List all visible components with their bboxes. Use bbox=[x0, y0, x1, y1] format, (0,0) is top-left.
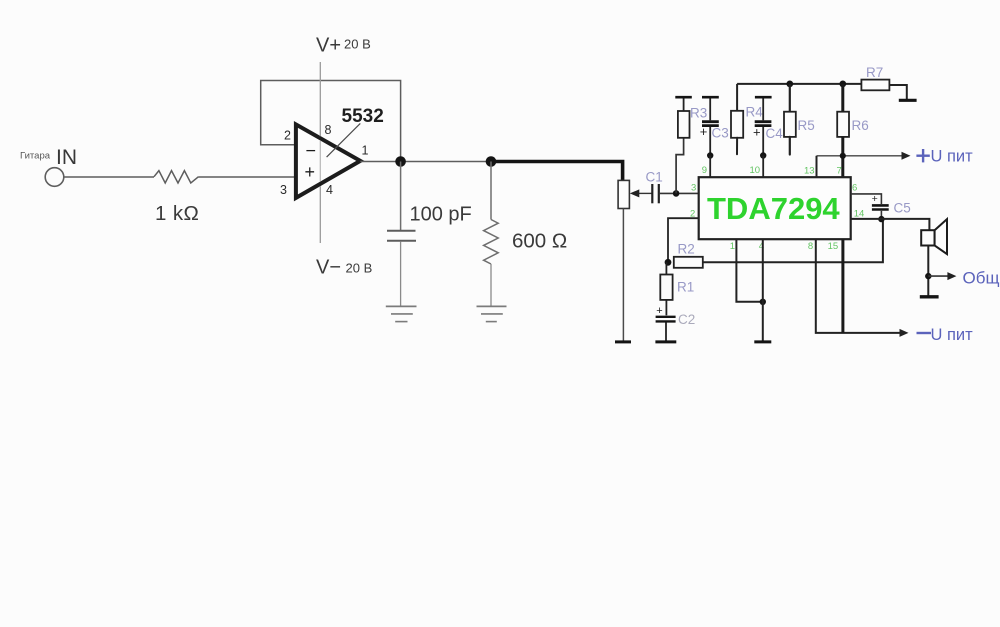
wire pin 7 bbox=[841, 137, 844, 177]
speaker horn bbox=[935, 219, 947, 254]
capacitor C2 plates bbox=[656, 316, 676, 318]
svg-text:100 pF: 100 pF bbox=[410, 204, 472, 226]
ground earth under 100 pF bbox=[386, 305, 417, 307]
svg-text:8: 8 bbox=[325, 123, 332, 137]
wire op-amp output bbox=[360, 161, 491, 163]
capacitor 100 pF plates bbox=[387, 230, 416, 232]
wire input to R 1k bbox=[64, 176, 154, 178]
wire pin 1 bbox=[736, 239, 762, 302]
svg-text:9: 9 bbox=[702, 165, 707, 176]
svg-text:R5: R5 bbox=[798, 118, 815, 133]
svg-text:C3: C3 bbox=[712, 126, 729, 141]
svg-text:+: + bbox=[305, 162, 316, 182]
wire pin 10 bbox=[762, 156, 764, 178]
svg-text:Общ: Общ bbox=[963, 269, 1000, 288]
svg-text:6: 6 bbox=[852, 183, 857, 194]
top supply rail wire bbox=[737, 83, 861, 85]
svg-text:R3: R3 bbox=[690, 106, 707, 121]
thick wire output to potentiometer bbox=[491, 162, 623, 181]
resistor R6 bbox=[837, 112, 849, 137]
wire 100 pF to ground bbox=[400, 242, 402, 306]
wire pin 2 to R1/R2 node bbox=[668, 218, 699, 262]
capacitor C5 plates bbox=[872, 204, 889, 207]
svg-text:+: + bbox=[656, 305, 662, 317]
svg-text:3: 3 bbox=[280, 183, 287, 197]
wire R5 bottom stub bbox=[789, 137, 791, 155]
wire pin 4 to ground bbox=[762, 239, 764, 340]
svg-text:600 Ω: 600 Ω bbox=[512, 230, 567, 253]
capacitor C1 plates bbox=[651, 184, 653, 203]
net label -U пит bbox=[917, 332, 932, 334]
wire C4 bottom lead to pin 10 node bbox=[762, 127, 764, 156]
arrowhead Общ bbox=[947, 272, 956, 280]
wire C3 top lead bbox=[709, 98, 711, 120]
svg-text:IN: IN bbox=[56, 146, 77, 169]
svg-text:U пит: U пит bbox=[931, 326, 974, 344]
wire pin 9 bbox=[709, 156, 711, 178]
svg-text:R4: R4 bbox=[746, 105, 764, 120]
resistor 600 Ω zigzag bbox=[484, 220, 499, 265]
svg-text:+: + bbox=[872, 193, 878, 205]
ground earth under 600 Ω bbox=[477, 305, 507, 307]
junction dot C5 bottom bbox=[878, 216, 884, 222]
svg-text:8: 8 bbox=[808, 241, 813, 252]
svg-text:1: 1 bbox=[362, 144, 369, 158]
ground bar under C2 bbox=[655, 340, 676, 343]
svg-text:+: + bbox=[753, 125, 761, 140]
feedback wire R2 to C5 node bbox=[703, 219, 883, 262]
junction dot pin1 pin4 bbox=[760, 299, 766, 305]
capacitor C4 electrolytic plates bbox=[755, 120, 772, 123]
wire 600 Ω to ground bbox=[490, 264, 492, 306]
svg-text:Гитара: Гитара bbox=[20, 151, 51, 162]
resistor R1 bbox=[660, 275, 672, 300]
svg-text:R2: R2 bbox=[678, 242, 695, 257]
svg-text:R6: R6 bbox=[852, 118, 869, 133]
svg-text:10: 10 bbox=[750, 165, 761, 176]
potentiometer body bbox=[618, 180, 629, 208]
junction dot R5 top bbox=[786, 81, 793, 88]
wire R4 top lead to rail bbox=[736, 84, 738, 111]
svg-text:20 В: 20 В bbox=[344, 37, 371, 52]
svg-text:3: 3 bbox=[691, 183, 696, 194]
junction dot pin 10 node bbox=[760, 152, 766, 158]
svg-text:V+: V+ bbox=[316, 35, 341, 57]
svg-text:R7: R7 bbox=[866, 65, 883, 80]
wire R4 bottom stub bbox=[736, 138, 738, 154]
open terminal bar above C3 bbox=[702, 96, 719, 99]
ground bar under pin 4 bbox=[754, 340, 771, 343]
wire pin 6 to C5 bbox=[851, 194, 882, 204]
svg-text:13: 13 bbox=[804, 166, 815, 177]
wire C3 bottom lead to pin 9 node bbox=[709, 127, 711, 156]
resistor R7 bbox=[861, 80, 889, 91]
open terminal bar above R3 bbox=[675, 96, 692, 99]
svg-text:2: 2 bbox=[284, 129, 291, 143]
open terminal bar above C4 bbox=[755, 96, 772, 99]
ground bar under speaker bbox=[920, 295, 939, 298]
svg-text:TDA7294: TDA7294 bbox=[707, 191, 840, 226]
wire R6 top lead to rail bbox=[841, 84, 844, 112]
wire C2 to ground bbox=[665, 323, 667, 341]
feedback wire pin2 loop to output bbox=[261, 81, 401, 162]
wire R5 top lead to rail bbox=[789, 84, 791, 112]
capacitor C3 electrolytic plates bbox=[702, 120, 719, 123]
svg-text:20 В: 20 В bbox=[346, 261, 373, 276]
wire pin 8 to -U pit bbox=[816, 239, 902, 333]
wire R3 top lead bbox=[683, 98, 685, 111]
svg-text:+: + bbox=[700, 124, 708, 139]
net label +U пит bbox=[916, 154, 929, 156]
resistor R2 bbox=[674, 257, 703, 268]
svg-text:V−: V− bbox=[316, 257, 341, 279]
arrowhead +U пит bbox=[902, 152, 911, 160]
wiper arrow into potentiometer bbox=[637, 192, 652, 194]
junction dot pin3 node bbox=[673, 190, 680, 197]
svg-text:C4: C4 bbox=[766, 126, 784, 141]
wire node B to resistor 600 Ω bbox=[490, 162, 492, 220]
resistor 1 kΩ bbox=[154, 171, 199, 183]
input terminal circle bbox=[45, 168, 64, 187]
node junction dot A bbox=[395, 156, 406, 167]
ground bar R7 bbox=[899, 99, 917, 102]
junction dot speaker ground node bbox=[925, 273, 931, 279]
wire node A to capacitor 100 pF bbox=[400, 162, 402, 231]
wire pin 14 to speaker bbox=[851, 219, 930, 230]
speaker body bbox=[921, 230, 934, 245]
svg-text:14: 14 bbox=[854, 209, 865, 220]
wire pin 13 bbox=[816, 156, 818, 177]
arrow to Общ bbox=[928, 275, 949, 277]
wire speaker to ground bbox=[927, 246, 929, 296]
svg-text:5532: 5532 bbox=[342, 106, 384, 127]
svg-text:4: 4 bbox=[326, 183, 333, 197]
svg-text:C1: C1 bbox=[646, 170, 663, 185]
op-amp U1 5532 triangle bbox=[296, 124, 360, 197]
wire R 1k to op-amp pin 3 bbox=[199, 176, 297, 178]
wire pin 15 bbox=[841, 239, 844, 333]
junction dot pin7 +U bbox=[840, 153, 846, 159]
resistor R3 bbox=[678, 111, 690, 138]
svg-text:7: 7 bbox=[837, 166, 842, 177]
IC U2 TDA7294 box bbox=[699, 177, 851, 239]
resistor R4 bbox=[731, 111, 743, 138]
wire C1 to pin 3 of IC bbox=[659, 192, 699, 194]
leader line to 5532 bbox=[327, 123, 361, 157]
power rail line through op-amp body bbox=[319, 141, 321, 182]
wire C5 bottom lead bbox=[880, 211, 882, 219]
wire +U pit line from pin 13 bbox=[817, 155, 904, 157]
potentiometer bottom leg bbox=[622, 209, 624, 341]
svg-text:R1: R1 bbox=[677, 280, 694, 295]
node junction dot B bbox=[486, 156, 497, 167]
wire R7 to ground bbox=[889, 85, 906, 99]
arrowhead -U пит bbox=[900, 329, 909, 337]
svg-text:15: 15 bbox=[828, 241, 839, 252]
wire R1 to C2 bbox=[665, 300, 667, 315]
wire R1 top lead bbox=[665, 262, 667, 274]
svg-text:U пит: U пит bbox=[931, 148, 974, 166]
junction dot R1 R2 node bbox=[665, 259, 672, 266]
ground bar under potentiometer bbox=[615, 340, 631, 343]
wire C4 top lead bbox=[762, 98, 764, 120]
wiper arrowhead bbox=[630, 189, 640, 197]
junction dot R6 top bbox=[839, 81, 846, 88]
power rail V+ vertical line upper bbox=[319, 62, 321, 136]
svg-text:−: − bbox=[306, 141, 317, 161]
junction dot pin 9 node bbox=[707, 152, 713, 158]
wire R3 bottom to pin3 node bbox=[676, 138, 684, 194]
svg-text:1: 1 bbox=[730, 241, 735, 252]
power rail V- vertical line lower bbox=[319, 186, 321, 243]
resistor R5 bbox=[784, 112, 796, 137]
svg-text:C5: C5 bbox=[894, 201, 911, 216]
svg-text:C2: C2 bbox=[678, 312, 695, 327]
svg-text:1 kΩ: 1 kΩ bbox=[155, 202, 199, 225]
